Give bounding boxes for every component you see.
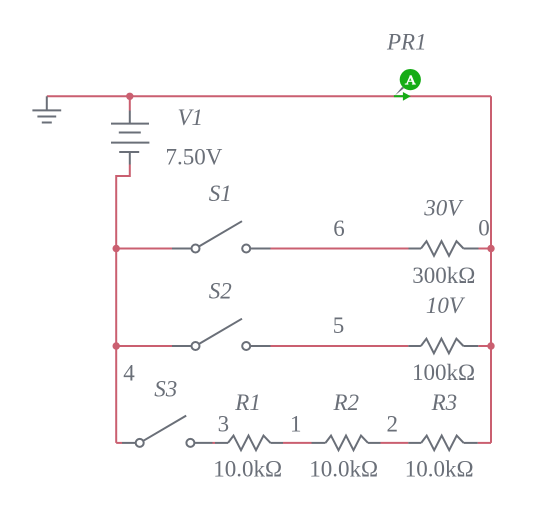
junction dot top at battery: [126, 93, 133, 100]
resistor 10V 100k (row2): [408, 339, 478, 354]
wire row2 middle segment: [271, 345, 409, 347]
probe PR1 arrow: [394, 92, 411, 101]
svg-text:100kΩ: 100kΩ: [412, 360, 475, 385]
wire row1 right segment: [479, 248, 492, 250]
wire top horizontal from ground to right rail: [47, 95, 491, 97]
svg-text:R2: R2: [333, 390, 360, 415]
svg-text:S2: S2: [209, 278, 232, 303]
switch S2: [172, 319, 271, 350]
wire row2 left segment: [116, 345, 172, 347]
wire row3 segment R3 to right rail: [478, 442, 491, 444]
svg-text:3: 3: [218, 412, 230, 437]
svg-text:2: 2: [387, 412, 399, 437]
wire row1 left segment: [116, 248, 172, 250]
svg-text:10.0kΩ: 10.0kΩ: [213, 457, 282, 482]
svg-text:R1: R1: [234, 390, 261, 415]
wire right vertical rail: [490, 96, 492, 443]
probe PR1 circle: [400, 69, 421, 90]
wire battery top stub: [129, 96, 131, 110]
svg-text:R3: R3: [431, 390, 458, 415]
svg-text:PR1: PR1: [386, 30, 427, 55]
svg-text:0: 0: [478, 216, 490, 241]
battery V1: [111, 111, 149, 165]
switch S3: [122, 416, 213, 447]
wire row3 segment R2 to R3: [381, 442, 409, 444]
resistor 30V 300k (row1): [409, 241, 479, 256]
wire battery bottom jog to left rail: [116, 165, 130, 443]
junction dot left rail row2: [113, 342, 120, 349]
probe PR1 leader needle: [395, 87, 404, 96]
probe PR1 letter A: [405, 75, 416, 84]
svg-text:10V: 10V: [426, 293, 466, 318]
junction dot right rail row1: [487, 245, 494, 252]
svg-text:10.0kΩ: 10.0kΩ: [309, 457, 378, 482]
svg-text:300kΩ: 300kΩ: [412, 263, 475, 288]
resistor R3: [408, 436, 477, 451]
resistor R1: [215, 436, 283, 451]
resistor R2: [312, 436, 381, 451]
svg-text:6: 6: [333, 216, 345, 241]
svg-text:S1: S1: [209, 181, 232, 206]
ground: [32, 96, 61, 122]
wire row3 stub at left rail corner: [116, 442, 122, 444]
wire row1 middle segment: [271, 248, 409, 250]
svg-text:1: 1: [290, 412, 302, 437]
wire row3 segment S3 to R1: [213, 442, 216, 444]
svg-text:30V: 30V: [423, 196, 464, 221]
svg-text:10.0kΩ: 10.0kΩ: [405, 457, 474, 482]
svg-text:4: 4: [123, 361, 135, 386]
svg-text:7.50V: 7.50V: [166, 144, 223, 169]
wire row3 segment R1 to R2: [283, 442, 312, 444]
junction dot right rail row2: [487, 342, 494, 349]
svg-text:S3: S3: [154, 377, 177, 402]
switch S1: [172, 221, 271, 252]
svg-text:5: 5: [333, 313, 345, 338]
wire row2 right segment: [478, 345, 491, 347]
svg-text:V1: V1: [178, 105, 204, 130]
junction dot left rail row1: [113, 245, 120, 252]
